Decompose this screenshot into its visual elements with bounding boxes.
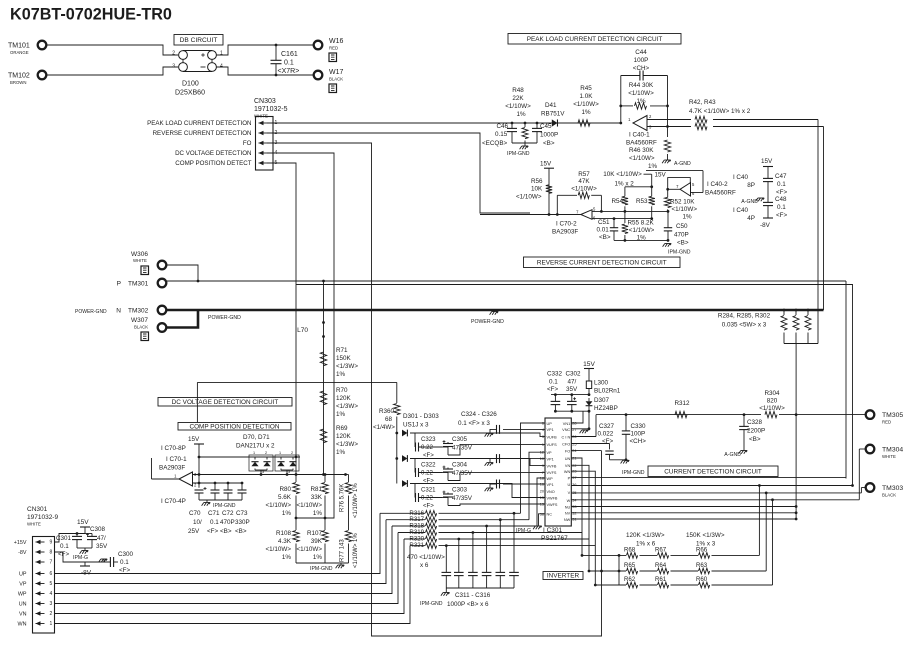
terminal TM302 N POWER-GND: [158, 306, 167, 315]
CN301 pin 2 VN: [36, 613, 45, 615]
svg-text:VUFB: VUFB: [547, 435, 558, 439]
divider junction wire: [296, 517, 334, 519]
svg-text:15: 15: [540, 496, 544, 500]
svg-text:<B>: <B>: [235, 528, 247, 535]
svg-text:VNO: VNO: [547, 490, 555, 494]
svg-text:<B>: <B>: [749, 436, 761, 443]
svg-text:5.6K: 5.6K: [278, 494, 292, 501]
svg-text:1.0K: 1.0K: [580, 93, 594, 100]
svg-text:L300: L300: [594, 380, 609, 387]
svg-text:I C70-4P: I C70-4P: [161, 498, 186, 505]
svg-text:UN: UN: [565, 457, 571, 461]
svg-text:0.22: 0.22: [421, 470, 433, 477]
svg-text:15V: 15V: [540, 161, 552, 168]
svg-text:47/: 47/: [97, 535, 106, 542]
svg-text:HZ24BP: HZ24BP: [594, 405, 618, 412]
CN301 pin 8 -8V: [36, 551, 45, 553]
A-GND symbol for R46: [662, 160, 671, 163]
svg-text:D41: D41: [545, 102, 557, 109]
wire CN303 pin3 FO down and around bottom: [267, 143, 602, 636]
svg-text:UP: UP: [547, 422, 553, 426]
caps bottom rail and IPM-GND: [199, 499, 242, 501]
svg-text:R69: R69: [336, 425, 348, 432]
INVERTER label: [543, 572, 583, 580]
svg-text:R312: R312: [674, 400, 690, 407]
svg-text:10K: 10K: [531, 186, 543, 193]
PEAK LOAD CURRENT DETECTION CIRCUIT label: [508, 34, 681, 45]
svg-text:D301 - D303: D301 - D303: [403, 413, 439, 420]
svg-text:1971032-5: 1971032-5: [254, 106, 288, 113]
svg-text:12: 12: [540, 451, 544, 455]
svg-text:ORANGE: ORANGE: [10, 50, 29, 55]
capacitor C71: [214, 483, 216, 490]
svg-text:68: 68: [385, 416, 393, 423]
svg-text:<1/10W>: <1/10W>: [296, 546, 322, 553]
svg-text:4: 4: [50, 591, 53, 597]
svg-text:POWER-GND: POWER-GND: [75, 309, 107, 315]
svg-text:DB CIRCUIT: DB CIRCUIT: [180, 37, 218, 44]
svg-text:0.035 <5W> x 3: 0.035 <5W> x 3: [722, 322, 767, 329]
svg-text:IPM-GND: IPM-GND: [668, 250, 691, 256]
resistor R316: [380, 512, 425, 514]
svg-text:C302: C302: [566, 371, 582, 378]
svg-text:TM301: TM301: [128, 281, 149, 288]
svg-text:<F>: <F>: [423, 503, 434, 510]
svg-text:RB751V: RB751V: [541, 111, 565, 118]
svg-text:1%: 1%: [636, 98, 646, 105]
svg-text:1000P <B> x 6: 1000P <B> x 6: [447, 601, 489, 608]
resistor R54: [622, 196, 628, 205]
svg-text:BA4560RF: BA4560RF: [705, 189, 736, 196]
svg-text:15V: 15V: [77, 519, 89, 526]
svg-text:1%: 1%: [313, 510, 323, 517]
CN301 pin 5 VP: [36, 583, 45, 585]
svg-text:NC: NC: [547, 513, 553, 517]
svg-text:NU: NU: [565, 505, 571, 509]
NC pin stub to IPM-G: [539, 514, 546, 526]
svg-text:0.1 <F> x 3: 0.1 <F> x 3: [458, 420, 490, 427]
svg-text:1%: 1%: [516, 111, 526, 118]
capacitor C301: [76, 532, 79, 535]
resistor R317: [386, 519, 425, 521]
svg-text:R66: R66: [696, 547, 708, 554]
svg-text:FO: FO: [243, 140, 252, 147]
svg-text:VP1: VP1: [547, 483, 554, 487]
svg-text:US1J x 3: US1J x 3: [403, 422, 429, 429]
svg-text:0.22: 0.22: [421, 444, 433, 451]
svg-text:WHITE: WHITE: [27, 522, 41, 527]
terminal W306: [158, 261, 167, 270]
svg-text:C I N: C I N: [562, 435, 571, 439]
wire NV to shunt sense vertical: [571, 512, 796, 514]
capacitor C51: [613, 219, 615, 228]
svg-text:470P: 470P: [220, 519, 235, 526]
gate lines UP VP WP UN VN WN from CN301: [55, 513, 380, 573]
output wire IC70-2 to CN303 pin2: [548, 213, 551, 216]
CN301 pin 6 UP: [36, 573, 45, 575]
svg-text:C303: C303: [452, 487, 468, 494]
svg-text:<1/3W>: <1/3W>: [336, 441, 358, 448]
svg-text:PEAK LOAD CURRENT DETECTION CI: PEAK LOAD CURRENT DETECTION CIRCUIT: [527, 36, 663, 43]
svg-text:PEAK LOAD CURRENT DETECTION: PEAK LOAD CURRENT DETECTION: [147, 120, 251, 127]
wire VN down to 120K row: [571, 465, 589, 571]
svg-text:150K: 150K: [336, 355, 352, 362]
svg-text:3: 3: [288, 470, 290, 474]
svg-text:120K <1/3W>: 120K <1/3W>: [626, 532, 665, 539]
wire bridge to W17: [217, 67, 314, 75]
P sense line with R312 R304: [596, 414, 761, 416]
svg-text:21: 21: [572, 457, 576, 461]
svg-text:IPM-G: IPM-G: [516, 528, 531, 534]
svg-text:330P: 330P: [235, 519, 250, 526]
svg-text:<1/10W>: <1/10W>: [672, 206, 698, 213]
wire NU to shunt sense vertical: [571, 506, 796, 508]
svg-text:0.01: 0.01: [597, 227, 610, 234]
svg-text:VWFS: VWFS: [547, 503, 558, 507]
terminal TM304 WHITE: [866, 445, 875, 454]
svg-text:R44 30K: R44 30K: [629, 82, 654, 89]
svg-text:0.1: 0.1: [549, 379, 558, 386]
svg-text:IPM-GND: IPM-GND: [507, 151, 530, 157]
svg-text:0.1: 0.1: [284, 60, 294, 67]
svg-text:15V: 15V: [188, 436, 200, 443]
comparator IC70-2 BA2903F: [581, 210, 592, 220]
svg-text:2: 2: [291, 451, 293, 455]
svg-text:W16: W16: [329, 38, 344, 45]
svg-text:CURRENT DETECTION CIRCUIT: CURRENT DETECTION CIRCUIT: [664, 468, 762, 475]
svg-text:<B>: <B>: [677, 239, 689, 246]
comparator IC40-2 BA4560RF: [680, 183, 691, 196]
P line from TM301 to right side: [167, 280, 847, 282]
IPM-G ground: [77, 547, 92, 549]
IPM-GND for C46/R48/C45: [512, 142, 537, 144]
zener diode D307 HZ24BP: [586, 401, 593, 405]
svg-text:3: 3: [172, 64, 175, 70]
svg-text:R64: R64: [655, 562, 667, 569]
svg-text:BLACK: BLACK: [134, 325, 148, 330]
wire CN303 pin4 DC VOLTAGE down: [267, 153, 334, 518]
svg-text:<1/10W>: <1/10W>: [629, 155, 655, 162]
svg-text:C46: C46: [496, 123, 508, 130]
svg-text:C44: C44: [635, 49, 647, 56]
svg-text:16: 16: [540, 483, 544, 487]
svg-text:0.1: 0.1: [210, 519, 219, 526]
CN303 pin 2 REVERSE CURRENT DETECTION: [259, 132, 268, 134]
resistor R44: [619, 105, 622, 108]
svg-text:VN: VN: [19, 612, 27, 618]
svg-text:C301: C301: [56, 535, 72, 542]
resistor R81 33K: [324, 475, 326, 483]
resistor R360 68: [396, 382, 398, 403]
svg-text:VP: VP: [19, 582, 27, 588]
resistor R321: [410, 545, 425, 547]
svg-text:<F>: <F>: [547, 386, 559, 393]
capacitor C47: [763, 177, 773, 179]
CN303 pin 3 FO: [259, 142, 268, 144]
svg-text:R360: R360: [379, 408, 395, 415]
svg-text:13: 13: [540, 503, 544, 507]
svg-text:1: 1: [220, 51, 223, 57]
svg-text:47K: 47K: [578, 178, 590, 185]
wire P pin to right loop: [571, 477, 846, 479]
svg-text:C73: C73: [236, 510, 248, 517]
wire U pin to L2 junction: [571, 485, 852, 487]
svg-text:VP1: VP1: [547, 428, 554, 432]
resistor R80 5.6K: [295, 457, 297, 482]
svg-text:A-GND: A-GND: [674, 161, 691, 167]
svg-text:NW: NW: [564, 518, 571, 522]
svg-text:150K <1/3W>: 150K <1/3W>: [686, 532, 725, 539]
CN303 pin 1 PEAK LOAD CURRENT DETECTION: [259, 122, 268, 124]
svg-text:INVERTER: INVERTER: [547, 573, 580, 580]
svg-text:24: 24: [572, 449, 576, 453]
svg-text:C72: C72: [222, 510, 234, 517]
svg-text:<1/10W>: <1/10W>: [759, 405, 785, 412]
svg-text:<CH>: <CH>: [630, 438, 647, 445]
bridge rectifier D100 D25XB60: [183, 51, 212, 72]
capacitor C327 0.022: [571, 443, 609, 445]
wire VNC pin to D307 column: [571, 428, 589, 430]
svg-text:0.1: 0.1: [777, 204, 786, 211]
svg-text:WN: WN: [564, 470, 571, 474]
resistor R69 120K: [320, 429, 326, 443]
svg-text:31: 31: [572, 518, 576, 522]
svg-text:R107: R107: [307, 530, 323, 537]
svg-text:CN303: CN303: [254, 98, 276, 105]
wire VN1 pin stub to ground rail: [571, 411, 583, 423]
op-amp IC40-1 BA4560RF: [633, 116, 647, 131]
svg-text:1%: 1%: [282, 554, 292, 561]
svg-text:WP: WP: [547, 477, 554, 481]
svg-text:<1/10W>: <1/10W>: [265, 546, 291, 553]
bootstrap stage 3 wires C321 C303: [410, 484, 545, 498]
svg-text:W17: W17: [329, 69, 344, 76]
column U to R66 row: [758, 486, 760, 556]
svg-text:RED: RED: [329, 46, 338, 51]
svg-text:I C40: I C40: [733, 174, 749, 181]
wire CN303 pin2 REVERSE to IC70-2 output: [267, 133, 530, 213]
svg-text:D25XB60: D25XB60: [175, 90, 205, 97]
svg-text:IPM-G: IPM-G: [73, 555, 88, 561]
svg-text:1%: 1%: [336, 411, 346, 418]
svg-text:BA2903F: BA2903F: [159, 465, 185, 472]
svg-text:IPM-GND: IPM-GND: [420, 601, 443, 607]
svg-text:IPM-GND: IPM-GND: [622, 470, 645, 476]
IC70-1 plus input long wire: [193, 474, 346, 476]
svg-text:TM101: TM101: [8, 43, 30, 50]
svg-text:4.3K: 4.3K: [278, 538, 292, 545]
wire FO pin down (joins CN303 pin3 net): [571, 450, 601, 452]
svg-text:COMP POSITION DETECT: COMP POSITION DETECT: [175, 160, 251, 167]
svg-text:2: 2: [172, 51, 175, 57]
svg-text:C48: C48: [775, 196, 787, 203]
svg-text:I C40: I C40: [733, 207, 749, 214]
svg-text:C327: C327: [599, 423, 615, 430]
svg-text:CN301: CN301: [27, 506, 48, 513]
svg-text:IPM-GND: IPM-GND: [213, 503, 236, 509]
svg-text:0.1: 0.1: [60, 543, 69, 550]
bottom rail C51 R55 C50: [614, 239, 668, 241]
svg-text:R68: R68: [624, 547, 636, 554]
svg-text:-8V: -8V: [760, 222, 771, 229]
resistor R70 120K: [320, 391, 326, 405]
svg-text:R62: R62: [624, 576, 636, 583]
capacitor C161: [275, 44, 278, 47]
svg-text:R284, R285, R302: R284, R285, R302: [718, 313, 771, 320]
svg-text:DC VOLTAGE DETECTION: DC VOLTAGE DETECTION: [175, 150, 251, 157]
svg-text:0.022: 0.022: [598, 431, 614, 438]
IPM-GND for C327 C330: [610, 459, 627, 461]
svg-text:C300: C300: [118, 551, 134, 558]
column V to R63 row: [765, 493, 767, 571]
svg-text:<F>: <F>: [602, 438, 614, 445]
svg-text:0.22: 0.22: [421, 495, 433, 502]
svg-text:<1/10W>: <1/10W>: [571, 186, 597, 193]
svg-text:820: 820: [767, 398, 778, 405]
terminal TM301 P: [158, 279, 167, 288]
svg-text:VVFB: VVFB: [547, 464, 557, 468]
svg-text:<F>: <F>: [776, 212, 788, 219]
svg-text:R65: R65: [624, 562, 636, 569]
svg-text:<1/10W> 1%: <1/10W> 1%: [353, 533, 359, 568]
svg-text:35V: 35V: [96, 543, 108, 550]
svg-text:C324 - C326: C324 - C326: [461, 411, 497, 418]
svg-text:L70: L70: [297, 327, 308, 334]
svg-text:TM102: TM102: [8, 73, 30, 80]
svg-text:D100: D100: [182, 81, 199, 88]
svg-text:5: 5: [50, 581, 53, 587]
svg-text:<F>: <F>: [423, 452, 434, 459]
resistor R46 30K to A-GND: [666, 125, 669, 128]
svg-text:15V: 15V: [583, 361, 595, 368]
svg-text:C304: C304: [452, 462, 468, 469]
wire C46 node through D41 R45 to IC40-1: [512, 122, 621, 124]
shunt sense vertical to NU NV NW: [795, 344, 797, 520]
capacitor C72: [227, 483, 229, 490]
wire WN down to 120K row: [571, 471, 595, 585]
svg-text:<ECQB>: <ECQB>: [482, 140, 508, 147]
svg-text:TM304: TM304: [882, 447, 903, 454]
inductor L300 BL02Rn1: [586, 381, 591, 389]
svg-text:VP: VP: [547, 451, 553, 455]
svg-text:10K <1/10W>: 10K <1/10W>: [603, 171, 642, 178]
wire CIN to R312 line: [571, 436, 596, 438]
svg-text:U: U: [567, 483, 570, 487]
wire UN down to 120K row: [571, 458, 582, 555]
svg-text:I C70-2: I C70-2: [556, 220, 577, 227]
svg-text:<B>: <B>: [220, 528, 232, 535]
svg-text:C332: C332: [547, 371, 563, 378]
-8V supply: [763, 217, 773, 219]
svg-text:1: 1: [279, 451, 281, 455]
svg-text:<1/3W>: <1/3W>: [336, 403, 358, 410]
svg-text:9: 9: [50, 540, 53, 546]
svg-text:1%: 1%: [313, 554, 323, 561]
svg-text:VN1: VN1: [563, 422, 570, 426]
terminal TM101: [38, 41, 47, 50]
svg-text:1%: 1%: [336, 449, 346, 456]
svg-text:470P: 470P: [674, 232, 689, 239]
capacitors C311-C316 1000P x6: [445, 546, 447, 573]
DC VOLTAGE DETECTION CIRCUIT label: [158, 398, 292, 407]
svg-text:<B>: <B>: [599, 234, 611, 241]
svg-text:VNC: VNC: [562, 428, 570, 432]
svg-text:BL02Rn1: BL02Rn1: [594, 388, 621, 395]
svg-text:100P: 100P: [634, 57, 649, 64]
svg-text:47/35V: 47/35V: [452, 470, 473, 477]
svg-text:A-GND: A-GND: [724, 452, 741, 458]
svg-text:10: 10: [540, 457, 544, 461]
svg-text:20: 20: [540, 490, 544, 494]
svg-text:1000P: 1000P: [540, 132, 558, 139]
A-GND for C328: [739, 451, 748, 454]
svg-text:28: 28: [572, 422, 576, 426]
svg-text:BLACK: BLACK: [329, 77, 343, 82]
svg-text:0.1: 0.1: [120, 559, 129, 566]
svg-text:9: 9: [542, 464, 544, 468]
svg-text:4: 4: [220, 64, 223, 70]
svg-text:W307: W307: [131, 317, 148, 324]
svg-text:R46 30K: R46 30K: [629, 147, 654, 154]
wire NW to shunt sense vertical: [571, 518, 796, 520]
svg-text:WHITE: WHITE: [133, 258, 147, 263]
wire R42 down to shunt bottom: [817, 120, 819, 344]
svg-text:R57: R57: [578, 171, 590, 178]
svg-text:36: 36: [572, 483, 576, 487]
COMP POSITION DETECTION label: [178, 423, 291, 431]
wire R304 to TM305: [779, 414, 866, 416]
svg-text:I C40-1: I C40-1: [629, 132, 650, 139]
resistor R319: [398, 532, 425, 534]
capacitor C332: [554, 395, 556, 402]
capacitor C305 electrolytic: [447, 442, 449, 443]
svg-text:3: 3: [262, 470, 264, 474]
svg-text:<1/3W>: <1/3W>: [336, 363, 358, 370]
capacitor C302 electrolytic: [571, 395, 573, 402]
svg-text:x 6: x 6: [420, 562, 429, 569]
svg-text:120K: 120K: [336, 395, 352, 402]
wire TM304 stub down to W line: [859, 448, 865, 450]
svg-text:R77 143: R77 143: [340, 539, 346, 562]
svg-text:15V: 15V: [655, 172, 667, 179]
svg-text:R52 10K: R52 10K: [670, 199, 695, 206]
svg-text:I C301: I C301: [543, 527, 563, 534]
IC70-2 minus input line: [592, 218, 652, 220]
CN303 pin 4 DC VOLTAGE DETECTION: [259, 152, 268, 154]
CN301 pin 1 WN: [36, 623, 45, 625]
svg-text:1: 1: [542, 443, 544, 447]
svg-text:VVFS: VVFS: [547, 471, 557, 475]
svg-text:DC VOLTAGE DETECTION CIRCUIT: DC VOLTAGE DETECTION CIRCUIT: [172, 399, 279, 406]
capacitor C45: [536, 122, 539, 125]
capacitor C73: [241, 483, 243, 490]
resistor R52 10K: [667, 189, 669, 197]
svg-text:0.15: 0.15: [495, 131, 508, 138]
terminal TM102: [38, 71, 47, 80]
svg-text:2: 2: [50, 611, 53, 617]
wire CN303 pin5 COMP POSITION down: [267, 163, 296, 457]
svg-text:VUFS: VUFS: [547, 443, 558, 447]
svg-text:REVERSE CURRENT DETECTION: REVERSE CURRENT DETECTION: [153, 130, 252, 137]
svg-text:22: 22: [572, 464, 576, 468]
svg-text:6: 6: [50, 571, 53, 577]
svg-text:R55 8.2K: R55 8.2K: [628, 219, 655, 226]
rail for C332 C302: [551, 394, 589, 396]
wire TM303 stub down to V line: [861, 487, 865, 489]
wire W307 to POWER-GND: [167, 310, 199, 328]
resistor R108 4.3K: [295, 518, 297, 530]
svg-text:<1/10W>: <1/10W>: [573, 101, 599, 108]
